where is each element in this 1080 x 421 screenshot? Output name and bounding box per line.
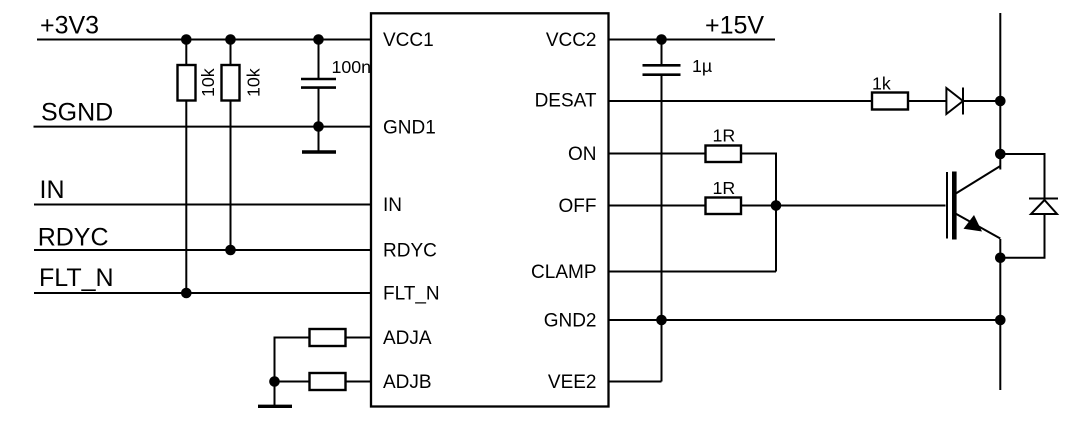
wire C1 top lead xyxy=(318,40,320,80)
svg-text:FLT_N: FLT_N xyxy=(39,264,114,292)
svg-text:VEE2: VEE2 xyxy=(548,372,597,393)
node junction +3V3 / R2 xyxy=(225,34,236,45)
node junction C1 / SGND xyxy=(313,121,324,132)
wire CLAMP xyxy=(609,271,777,273)
wire C1 bottom lead xyxy=(318,88,320,127)
node junction VCC2 / C2 xyxy=(656,34,667,45)
wire freewheel diode branch bottom xyxy=(1000,214,1044,258)
svg-text:OFF: OFF xyxy=(559,196,597,217)
svg-text:1R: 1R xyxy=(713,125,736,145)
svg-text:10k: 10k xyxy=(244,68,264,97)
wire ADJB resistor to junction xyxy=(275,381,310,383)
svg-text:1µ: 1µ xyxy=(692,56,712,76)
svg-text:FLT_N: FLT_N xyxy=(383,283,440,304)
wire freewheel diode branch top xyxy=(1000,154,1044,199)
resistor R1 10k body xyxy=(178,65,196,101)
ground symbol 1 xyxy=(302,150,336,153)
wire IN horizontal xyxy=(34,204,372,206)
node junction collector / diode branch xyxy=(995,149,1006,160)
node junction DESAT / rail xyxy=(995,96,1006,107)
node junction emitter / diode branch xyxy=(995,252,1006,263)
node junction GND2 / C2 column xyxy=(656,315,667,326)
wire RDYC horizontal xyxy=(34,249,372,251)
node junction FLT_N / R1 xyxy=(181,288,192,299)
transistor Q1 gate bar xyxy=(946,172,948,239)
svg-text:IN: IN xyxy=(383,195,402,216)
wire C2 top lead xyxy=(661,40,663,66)
capacitor C2 1u plates xyxy=(643,64,681,67)
wire right rail top xyxy=(999,13,1001,170)
wire R5 to D1 xyxy=(908,100,946,102)
wire VEE2 xyxy=(609,381,662,383)
wire to ground 1 xyxy=(318,127,320,152)
wire +3V3 horizontal rail xyxy=(37,39,372,41)
resistor R7 1R body xyxy=(706,198,742,215)
wire R2 top lead xyxy=(230,40,232,66)
wire to ground 2 xyxy=(274,382,276,406)
wire DESAT to R5 xyxy=(609,100,873,102)
svg-text:ADJB: ADJB xyxy=(383,372,432,393)
wire ADJA resistor to corner xyxy=(275,338,310,382)
op-amp U1 gate driver IC body xyxy=(371,13,609,406)
transistor Q1 emitter arrow xyxy=(964,215,983,232)
wire R1 bottom lead to FLT_N xyxy=(185,101,187,294)
wire SGND horizontal xyxy=(34,126,373,128)
node junction +3V3 / C1 xyxy=(313,34,324,45)
svg-text:RDYC: RDYC xyxy=(383,240,437,261)
wire R6 to gate column xyxy=(741,154,776,272)
resistor R3 ADJA body xyxy=(310,329,346,346)
diode D2 freewheel triangle xyxy=(1031,200,1057,214)
svg-text:ON: ON xyxy=(568,144,597,165)
transistor Q1 emitter lead xyxy=(955,213,1000,238)
wire VCC2 to +15V xyxy=(609,39,776,41)
capacitor C1 100n plates xyxy=(301,78,336,81)
svg-text:SGND: SGND xyxy=(41,98,113,126)
wire D1 to rail xyxy=(963,100,1000,102)
svg-text:ADJA: ADJA xyxy=(383,328,432,349)
svg-text:CLAMP: CLAMP xyxy=(531,262,596,283)
wire GND2 horizontal xyxy=(609,319,1001,321)
wire R7 to IGBT gate xyxy=(741,205,946,207)
svg-text:1R: 1R xyxy=(713,178,736,198)
transistor Q1 channel bar xyxy=(952,172,957,240)
svg-text:RDYC: RDYC xyxy=(38,224,109,252)
node junction ADJA/ADJB xyxy=(269,376,280,387)
svg-text:VCC1: VCC1 xyxy=(383,30,434,51)
node junction RDYC / R2 xyxy=(225,245,236,256)
svg-text:1k: 1k xyxy=(872,73,891,93)
svg-text:GND2: GND2 xyxy=(544,310,597,331)
wire R1 top lead xyxy=(185,40,187,66)
resistor R5 1k body xyxy=(872,93,908,110)
svg-text:100n: 100n xyxy=(332,57,372,77)
svg-text:IN: IN xyxy=(40,176,65,204)
wire R2 bottom lead to RDYC xyxy=(230,101,232,251)
node junction gate column / OFF xyxy=(771,200,782,211)
wire C2 bottom lead down to VEE2 column xyxy=(661,75,663,382)
ground symbol 2 xyxy=(258,405,292,408)
svg-text:+3V3: +3V3 xyxy=(40,11,99,39)
wire ADJA pin to resistor xyxy=(346,337,372,339)
wire FLT_N horizontal xyxy=(34,292,372,294)
resistor R6 1R body xyxy=(706,146,742,163)
wire ON to R6 xyxy=(609,153,706,155)
resistor R2 10k body xyxy=(222,65,240,101)
wire OFF to R7 xyxy=(609,205,706,207)
wire emitter to lower rail xyxy=(999,239,1001,390)
transistor Q1 IGBT collector lead xyxy=(955,166,1000,194)
node junction GND2 / lower rail xyxy=(995,315,1006,326)
diode D1 DESAT diode xyxy=(946,88,963,114)
resistor R4 ADJB body xyxy=(310,373,346,390)
svg-text:GND1: GND1 xyxy=(383,117,436,138)
node junction +3V3 / R1 xyxy=(181,34,192,45)
svg-text:DESAT: DESAT xyxy=(535,91,597,112)
diode D2 freewheel cathode bar xyxy=(1029,198,1058,200)
svg-text:+15V: +15V xyxy=(705,12,764,40)
wire ADJB pin to resistor xyxy=(346,381,372,383)
svg-text:10k: 10k xyxy=(198,68,218,97)
svg-text:VCC2: VCC2 xyxy=(546,30,597,51)
